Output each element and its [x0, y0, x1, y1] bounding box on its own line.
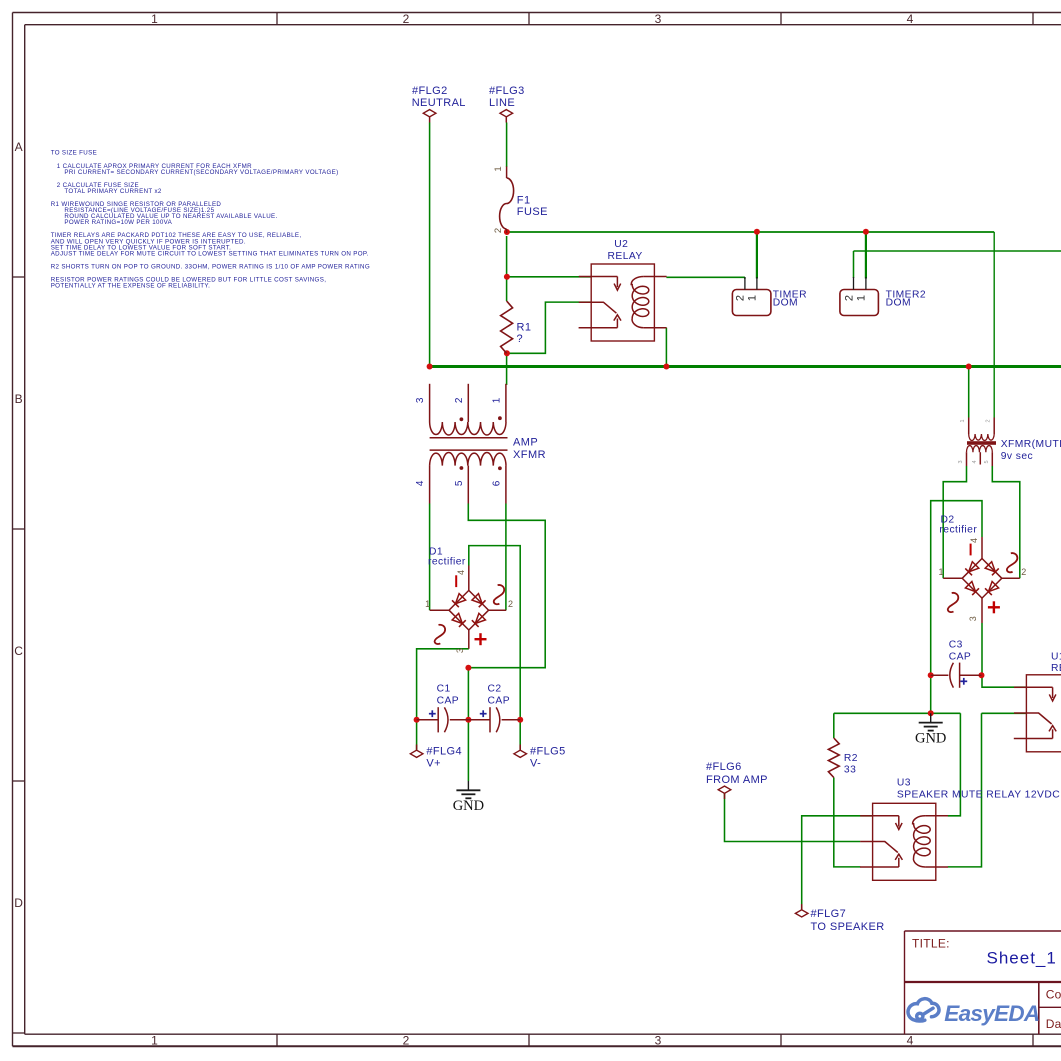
svg-text:4: 4	[415, 480, 426, 486]
svg-text:4: 4	[456, 570, 466, 575]
svg-text:#FLG5: #FLG5	[530, 746, 566, 758]
svg-text:GND: GND	[453, 798, 484, 814]
svg-text:rectifier: rectifier	[939, 525, 977, 536]
svg-text:DOM: DOM	[773, 298, 798, 309]
svg-text:LINE: LINE	[489, 97, 515, 109]
svg-text:RELAY: RELAY	[608, 251, 643, 262]
svg-text:TOTAL PRIMARY CURRENT x2: TOTAL PRIMARY CURRENT x2	[64, 188, 162, 195]
svg-text:#FLG4: #FLG4	[426, 746, 462, 758]
svg-text:2: 2	[403, 12, 410, 26]
svg-text:FROM AMP: FROM AMP	[706, 774, 768, 786]
svg-text:PRI CURRENT= SECONDARY CURRENT: PRI CURRENT= SECONDARY CURRENT(SECONDARY…	[64, 169, 338, 176]
svg-text:CAP: CAP	[488, 695, 511, 706]
svg-text:AMP: AMP	[513, 437, 538, 449]
svg-text:C3: C3	[949, 640, 963, 651]
svg-text:1: 1	[151, 1034, 158, 1048]
svg-text:CAP: CAP	[437, 695, 460, 706]
svg-text:#FLG6: #FLG6	[706, 761, 742, 773]
svg-text:ADJUST TIME DELAY FOR MUTE CIR: ADJUST TIME DELAY FOR MUTE CIRCUIT TO LO…	[51, 251, 369, 258]
svg-text:rectifier: rectifier	[428, 557, 466, 568]
svg-text:Company:: Company:	[1046, 988, 1061, 1002]
svg-text:R2 SHORTS TURN ON POP TO GROUN: R2 SHORTS TURN ON POP TO GROUND. 33OHM, …	[51, 264, 370, 271]
svg-text:2: 2	[508, 599, 513, 609]
svg-text:1: 1	[856, 295, 868, 301]
svg-text:U1: U1	[1051, 652, 1061, 663]
svg-text:EasyEDA: EasyEDA	[944, 1001, 1039, 1026]
svg-text:2: 2	[403, 1034, 410, 1048]
svg-text:POWER RATING=10W PER 100VA: POWER RATING=10W PER 100VA	[64, 219, 172, 226]
svg-text:1: 1	[151, 12, 158, 26]
svg-text:2: 2	[735, 295, 747, 301]
svg-text:?: ?	[517, 333, 524, 345]
svg-text:#FLG2: #FLG2	[412, 85, 448, 97]
svg-text:5: 5	[454, 480, 465, 486]
svg-text:3: 3	[455, 648, 465, 653]
svg-text:C1: C1	[437, 684, 451, 695]
svg-text:1: 1	[938, 567, 943, 577]
svg-text:RELAY: RELAY	[1051, 663, 1061, 674]
svg-text:1: 1	[492, 397, 503, 403]
svg-text:#FLG7: #FLG7	[811, 908, 847, 920]
svg-text:FUSE: FUSE	[517, 206, 548, 218]
svg-text:V+: V+	[426, 757, 441, 769]
svg-text:1: 1	[425, 599, 430, 609]
svg-text:#FLG3: #FLG3	[489, 85, 525, 97]
svg-text:CAP: CAP	[949, 652, 972, 663]
svg-text:4: 4	[907, 12, 914, 26]
svg-text:2: 2	[1021, 567, 1026, 577]
svg-text:SPEAKER MUTE RELAY 12VDC: SPEAKER MUTE RELAY 12VDC	[897, 790, 1060, 801]
svg-text:TO SIZE FUSE: TO SIZE FUSE	[51, 149, 97, 156]
svg-text:3: 3	[958, 460, 964, 463]
svg-text:3: 3	[655, 1034, 662, 1048]
svg-text:GND: GND	[915, 730, 946, 746]
svg-text:3: 3	[415, 397, 426, 403]
svg-text:V-: V-	[530, 757, 541, 769]
svg-text:R1: R1	[517, 321, 532, 333]
svg-text:POTENTIALLY AT THE EXPENSE OF: POTENTIALLY AT THE EXPENSE OF RELIABILIT…	[51, 283, 210, 290]
svg-text:1: 1	[747, 295, 759, 301]
svg-text:2: 2	[986, 419, 992, 422]
svg-text:3: 3	[968, 616, 978, 621]
svg-text:NEUTRAL: NEUTRAL	[412, 97, 466, 109]
svg-text:33: 33	[844, 765, 856, 776]
svg-text:U2: U2	[614, 239, 628, 250]
svg-text:2: 2	[454, 397, 465, 403]
svg-text:D: D	[14, 896, 23, 910]
svg-text:C: C	[14, 644, 23, 658]
svg-text:6: 6	[492, 480, 503, 486]
svg-text:XFMR: XFMR	[513, 449, 546, 461]
svg-text:4: 4	[907, 1034, 914, 1048]
svg-text:A: A	[15, 140, 23, 154]
svg-text:9v sec: 9v sec	[1001, 451, 1033, 462]
svg-text:DOM: DOM	[886, 298, 911, 309]
svg-text:1: 1	[493, 166, 504, 171]
svg-text:Sheet_1: Sheet_1	[987, 949, 1057, 968]
svg-text:3: 3	[655, 12, 662, 26]
svg-text:4: 4	[969, 538, 979, 543]
svg-text:B: B	[15, 392, 23, 406]
svg-text:XFMR(MUTE RELAY): XFMR(MUTE RELAY)	[1001, 439, 1061, 450]
svg-text:1: 1	[960, 419, 966, 422]
svg-text:2: 2	[493, 228, 504, 233]
svg-text:U3: U3	[897, 778, 911, 789]
svg-text:5: 5	[984, 460, 990, 463]
svg-text:4: 4	[972, 460, 978, 463]
svg-text:F1: F1	[517, 195, 531, 207]
svg-text:C2: C2	[488, 684, 502, 695]
svg-text:R2: R2	[844, 753, 858, 764]
svg-text:TO SPEAKER: TO SPEAKER	[811, 921, 885, 933]
svg-text:TITLE:: TITLE:	[912, 937, 950, 951]
svg-text:Date:: Date:	[1046, 1017, 1061, 1031]
svg-text:2: 2	[843, 295, 855, 301]
